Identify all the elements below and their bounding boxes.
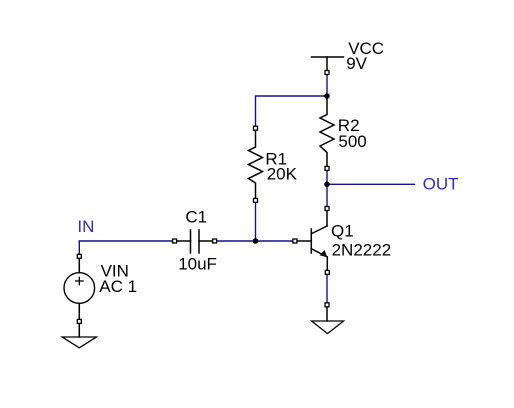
label AC 1 (99, 277, 137, 296)
junction node at base (253, 238, 259, 244)
label R2 (338, 116, 360, 135)
svg-text:C1: C1 (185, 207, 207, 226)
svg-text:2N2222: 2N2222 (332, 241, 392, 260)
label VCC (348, 39, 384, 58)
net label IN (77, 217, 94, 236)
junction node at VCC rail (324, 93, 330, 99)
pin VIN top (77, 254, 81, 258)
wire: C1 right to base junction to Q1 base pin (215, 240, 295, 242)
pin C1 right (213, 239, 217, 243)
svg-text:OUT: OUT (423, 174, 459, 193)
wire: top rail from R1 branch to VCC junction (256, 96, 328, 128)
label C1 (185, 207, 207, 226)
pin R1 top (254, 126, 258, 130)
pin R2 bottom (325, 166, 329, 170)
pin Q1 base (293, 239, 297, 243)
svg-text:Q1: Q1 (331, 221, 354, 240)
pin R1 bottom (254, 198, 258, 202)
label 9V (346, 54, 367, 73)
label VIN (101, 261, 129, 280)
svg-text:500: 500 (338, 132, 366, 151)
label 500 (338, 132, 366, 151)
label 10uF (178, 254, 217, 273)
power symbol VCC bar (312, 57, 344, 71)
label Q1 (331, 221, 354, 240)
pin C1 left (173, 239, 177, 243)
voltage source VIN (64, 259, 95, 320)
wire: OUT branch (327, 183, 415, 185)
wire: VCC stub down to junction (326, 73, 328, 96)
svg-text:AC 1: AC 1 (99, 277, 137, 296)
wire: emitter to ground pin (326, 273, 328, 305)
svg-text:10uF: 10uF (178, 254, 217, 273)
resistor R2 (320, 96, 334, 167)
pin Q1 collector (325, 207, 329, 211)
svg-text:IN: IN (77, 217, 94, 236)
wire: R1 bottom to base junction (255, 201, 257, 241)
ground (emitter) (312, 307, 344, 334)
pin VIN bottom (77, 319, 81, 323)
pin Q1 emitter (325, 270, 329, 274)
wire: IN down to VIN plus pin (78, 241, 80, 257)
junction node at OUT (324, 182, 330, 188)
capacitor C1 (177, 230, 213, 253)
pin VCC (325, 71, 329, 75)
label R1 (265, 149, 287, 168)
wire: IN horizontal into C1 and on to base (79, 240, 175, 242)
label 20K (267, 164, 298, 183)
net label OUT (423, 174, 459, 193)
ground (VIN) (62, 324, 96, 348)
wire: R2 bottom to OUT junction to collector (326, 169, 328, 209)
label 2N2222 (332, 241, 392, 260)
svg-text:9V: 9V (346, 54, 367, 73)
pin ground (emitter) (325, 303, 329, 307)
resistor R1 (249, 130, 263, 199)
svg-text:20K: 20K (267, 164, 298, 183)
transistor Q1 (297, 211, 327, 271)
